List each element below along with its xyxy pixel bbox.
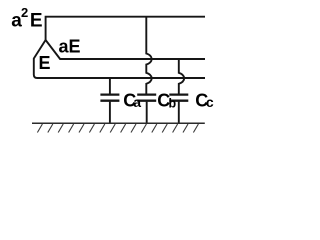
svg-text:E: E [30, 10, 43, 31]
svg-text:aE: aE [59, 36, 81, 56]
svg-text:c: c [206, 94, 214, 110]
svg-text:2: 2 [21, 5, 28, 20]
svg-text:E: E [39, 53, 51, 73]
svg-text:b: b [169, 96, 177, 110]
svg-text:a: a [133, 94, 141, 110]
